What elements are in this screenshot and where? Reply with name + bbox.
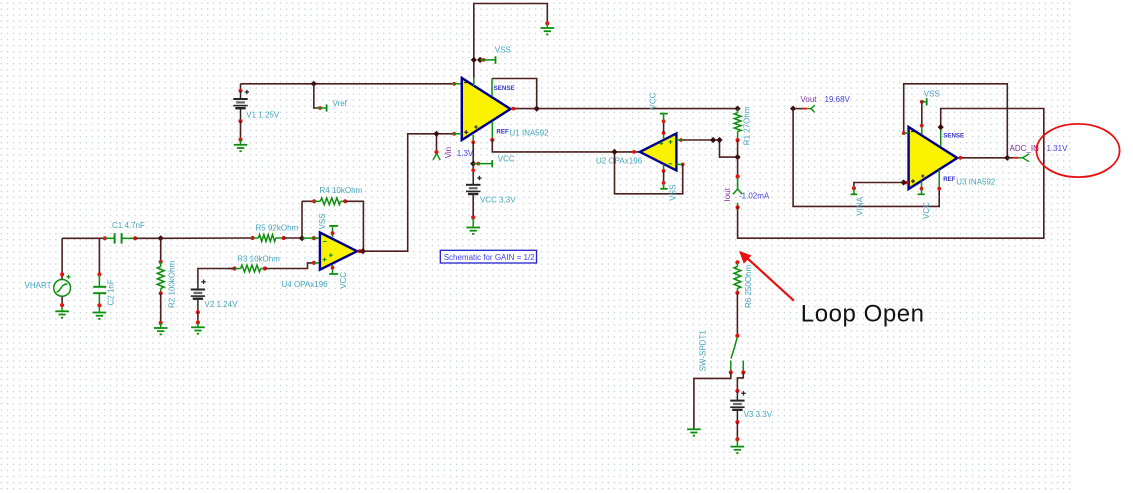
node wire dots <box>710 137 723 143</box>
ground below switch <box>687 429 701 435</box>
wire Iout loop bottom <box>738 109 1044 239</box>
svg-text:19.68V: 19.68V <box>825 95 851 104</box>
stub VSS above U4 <box>318 213 338 237</box>
svg-text:Iout: Iout <box>723 187 732 201</box>
svg-text:R5 92kOhm: R5 92kOhm <box>256 223 299 232</box>
node VCC stub U1 <box>470 161 476 167</box>
stub Vin <box>433 134 453 160</box>
svg-text:V3 3.3V: V3 3.3V <box>744 410 773 419</box>
wire C1 to R2 node <box>135 237 161 239</box>
node R2 junction <box>158 235 164 241</box>
wire VSS rail to ground <box>474 4 550 61</box>
label REF U1 <box>496 129 509 136</box>
pin VCC bottom U1 <box>471 135 475 164</box>
node Vref junction <box>311 81 317 87</box>
pin VSS top U1 <box>473 60 475 86</box>
wire R1 to U2 node <box>737 140 739 157</box>
svg-text:Loop Open: Loop Open <box>801 300 925 327</box>
pin VCC bottom U3 <box>918 181 932 219</box>
node U4 output <box>358 248 366 254</box>
label SENSE U3 <box>943 133 964 140</box>
pin REF U3 <box>937 170 941 191</box>
ground below VHART <box>55 297 69 318</box>
label 19.68V <box>825 95 851 104</box>
resistor R6 250Ohm <box>734 260 753 308</box>
resistor R2 100kOhm <box>157 238 176 325</box>
svg-text:R2 100kOhm: R2 100kOhm <box>168 261 177 308</box>
ground below R2 <box>154 323 168 335</box>
node VSS stub U1 <box>471 57 484 63</box>
svg-text:VCC: VCC <box>498 155 515 164</box>
stub ADC_IN <box>1007 144 1039 162</box>
battery V3 3.3V <box>730 391 773 442</box>
svg-text:U2 OPAx196: U2 OPAx196 <box>596 156 643 165</box>
svg-text:R6 250Ohm: R6 250Ohm <box>744 265 753 308</box>
resistor R3 10kOhm <box>228 255 280 272</box>
op-amp U4 OPAx196 <box>282 233 358 290</box>
battery VCC 3.3V <box>466 164 516 220</box>
svg-text:V2 1.24V: V2 1.24V <box>205 300 239 309</box>
ground below V1 <box>234 140 248 152</box>
ground top <box>541 23 555 34</box>
pin U1 -in <box>452 132 461 136</box>
ground below VCC battery <box>466 217 480 234</box>
svg-text:V1 1.25V: V1 1.25V <box>246 110 280 119</box>
label 1.3V <box>457 149 474 158</box>
pin U4 -in <box>302 236 320 240</box>
pin VCC top U2 <box>649 92 668 139</box>
stub Vref <box>314 84 348 112</box>
node VHART top <box>60 272 64 276</box>
wire R5 to U4 -in <box>284 237 302 239</box>
label Loop Open <box>801 300 925 327</box>
wire U3 output <box>957 156 1007 160</box>
label REF U3 <box>943 176 956 183</box>
svg-text:C1 4.7nF: C1 4.7nF <box>112 221 145 230</box>
op-amp U3 INA592 <box>909 127 996 189</box>
wire VHART to C1 net <box>62 238 105 279</box>
pin VSS bottom U2 <box>660 164 677 200</box>
svg-text:REF: REF <box>943 176 956 183</box>
svg-text:R3 10kOhm: R3 10kOhm <box>237 255 280 264</box>
svg-text:C2 1nF: C2 1nF <box>107 279 116 305</box>
pin U2 -in <box>676 163 684 167</box>
wire R2 node to R5 <box>161 237 253 239</box>
stub VSS U3 <box>920 90 940 106</box>
svg-text:SENSE: SENSE <box>494 85 515 92</box>
svg-text:VCC: VCC <box>339 272 348 289</box>
wire R6 to switch <box>736 293 738 336</box>
pin U3 -in <box>902 131 909 135</box>
wire switch right to V3 <box>735 372 743 393</box>
node R1 top junction <box>735 106 741 112</box>
wire Vin node to U1 -in <box>437 133 453 135</box>
note Schematic for GAIN <box>440 250 536 263</box>
source VHART <box>25 275 71 297</box>
node U3 +in junction <box>901 179 907 185</box>
svg-text:U3 INA592: U3 INA592 <box>956 177 996 186</box>
svg-text:VINA: VINA <box>856 196 865 215</box>
pin U1 +in <box>452 82 461 86</box>
resistor R4 10kOhm <box>302 186 363 205</box>
battery V1 1.25V <box>233 84 280 142</box>
wire Vout to U3 REF <box>793 109 939 207</box>
node U3 output junction <box>1004 155 1010 161</box>
capacitor C2 <box>93 238 115 307</box>
label -1.02mA <box>739 192 770 201</box>
svg-text:1.31V: 1.31V <box>1047 144 1069 153</box>
stub VCC below U4 <box>329 265 348 289</box>
stub VINA <box>851 186 865 216</box>
svg-text:U1 INA592: U1 INA592 <box>509 128 549 137</box>
svg-text:VCC: VCC <box>649 92 658 109</box>
stub VCC U1 <box>473 155 515 168</box>
svg-text:VSS: VSS <box>495 45 511 54</box>
svg-text:Vin: Vin <box>444 147 453 158</box>
svg-text:ADC_IN: ADC_IN <box>1010 144 1040 153</box>
svg-text:R4 10kOhm: R4 10kOhm <box>320 186 363 195</box>
svg-text:1.3V: 1.3V <box>457 149 474 158</box>
op-amp U1 INA592 <box>462 78 549 140</box>
arrow Loop Open <box>739 251 794 301</box>
pin U4 +in <box>312 261 320 265</box>
svg-text:VHART: VHART <box>25 281 52 290</box>
ground below V2 <box>191 323 205 334</box>
pin VSS top U3 <box>920 102 924 135</box>
wire switch left to ground <box>694 372 731 428</box>
node Vout junction <box>790 106 796 112</box>
svg-text:Schematic for GAIN = 1/2: Schematic for GAIN = 1/2 <box>444 253 535 262</box>
wire U3 -in loop <box>904 84 1008 158</box>
pin REF U1 <box>490 122 494 142</box>
node Iout junction <box>735 154 741 160</box>
wire U2 +in to R1 node <box>683 140 738 157</box>
svg-text:VCC 3.3V: VCC 3.3V <box>480 195 516 204</box>
label 1.31V <box>1047 144 1069 153</box>
svg-text:VSS: VSS <box>924 90 940 99</box>
svg-text:R1 27Ohm: R1 27Ohm <box>743 106 752 145</box>
wire R3 to U4 +in <box>265 263 314 269</box>
wire R4 feedback left <box>301 201 303 238</box>
capacitor C1 <box>103 221 145 243</box>
wire U3 +in to VINA stub <box>854 183 904 189</box>
node U2 output junction <box>611 149 635 155</box>
node SENSE U3 junction <box>938 124 944 130</box>
probe Iout <box>723 157 742 209</box>
svg-text:REF: REF <box>496 129 509 136</box>
pin U3 +in <box>904 181 909 184</box>
wire U2 feedback <box>615 152 683 194</box>
resistor R1 27Ohm <box>734 106 751 145</box>
svg-text:SW-SPDT1: SW-SPDT1 <box>699 330 708 372</box>
battery V2 1.24V <box>191 269 238 325</box>
pin SENSE U3 <box>940 127 942 146</box>
svg-text:VSS: VSS <box>668 185 677 201</box>
resistor R5 92kOhm <box>251 223 299 241</box>
pin SENSE U1 and loop to output <box>492 79 537 109</box>
stub Vout <box>793 95 817 113</box>
svg-text:-1.02mA: -1.02mA <box>739 192 770 201</box>
svg-text:Vout: Vout <box>801 95 818 104</box>
node SENSE-output junction <box>534 106 540 112</box>
svg-text:U4 OPAx196: U4 OPAx196 <box>282 280 329 289</box>
stub VSS U1 <box>480 45 511 64</box>
node U4 -in junction <box>299 235 305 241</box>
label SENSE U1 <box>494 85 515 92</box>
op-amp U2 OPAx196 <box>596 133 676 170</box>
svg-text:VSS: VSS <box>318 213 327 229</box>
wire R4 feedback right <box>345 201 363 251</box>
switch SW-SPDT1 <box>699 330 746 375</box>
node Vin junction <box>433 131 439 137</box>
svg-text:VCC: VCC <box>922 202 931 219</box>
ellipse annotation <box>1036 124 1119 177</box>
ground below V3 <box>731 439 745 453</box>
pin U2 +in <box>676 138 683 142</box>
wire U1 REF to U2 output <box>492 140 640 152</box>
svg-text:Vref: Vref <box>333 99 348 108</box>
wire V1 to U1 +in <box>241 83 453 85</box>
wire U4 output up to Vin node <box>357 134 436 251</box>
svg-text:SENSE: SENSE <box>943 133 964 140</box>
ground below C2 <box>93 307 107 319</box>
wire U1 output <box>511 107 738 111</box>
